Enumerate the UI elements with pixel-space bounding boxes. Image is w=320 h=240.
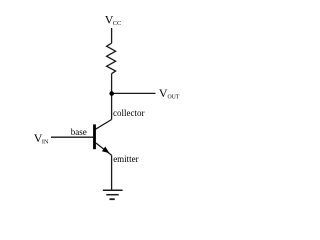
svg-text:OUT: OUT	[168, 94, 180, 100]
svg-text:collector: collector	[113, 108, 144, 118]
svg-text:IN: IN	[42, 139, 49, 146]
svg-text:base: base	[71, 127, 87, 137]
svg-text:emitter: emitter	[113, 154, 139, 164]
svg-text:CC: CC	[113, 20, 122, 27]
